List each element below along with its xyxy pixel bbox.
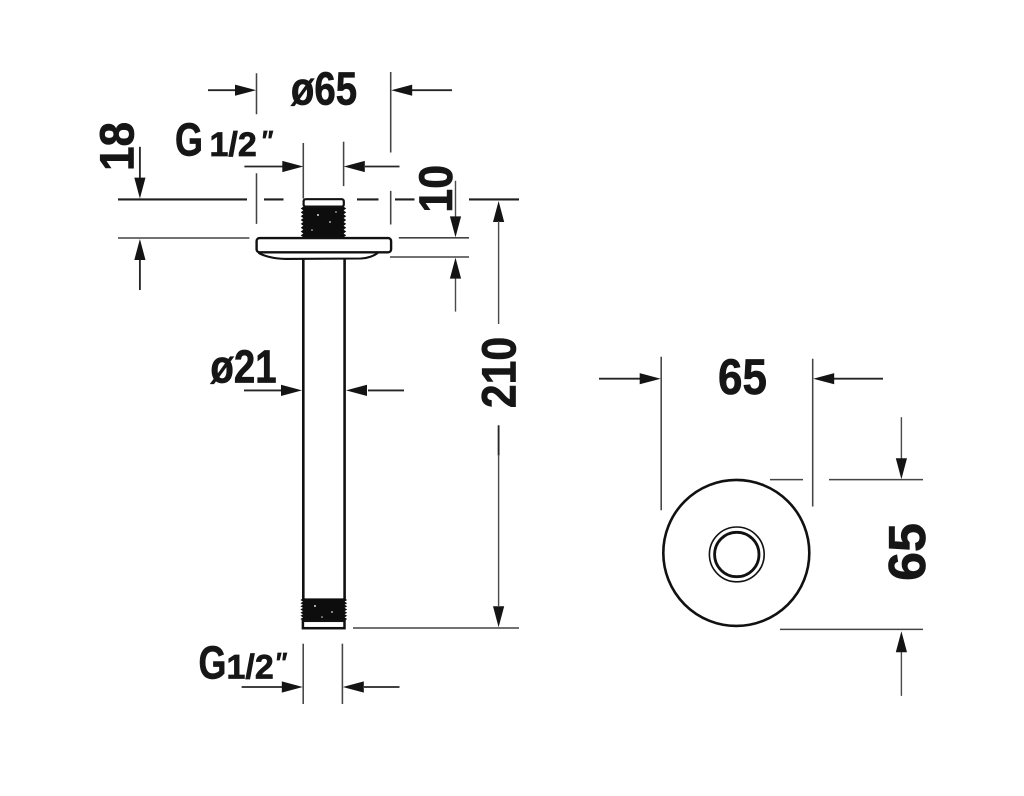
flange plate [257, 238, 392, 252]
right view: inner ring [715, 532, 759, 576]
bottom end band [303, 621, 345, 628]
bottom thread (hatched) [300, 598, 347, 620]
circle bottom tangent extension line [780, 628, 923, 630]
pipe bottom extension line [353, 627, 519, 629]
dim ø21: left arrow [244, 389, 283, 391]
svg-text:10: 10 [409, 165, 462, 213]
dim 65 horizontal: left extension line [660, 357, 662, 511]
pipe right wall [343, 259, 346, 599]
svg-text:″: ″ [276, 646, 287, 678]
dim ø65: right arrow [412, 89, 452, 91]
flange skirt [259, 253, 378, 259]
svg-text:″: ″ [262, 124, 273, 156]
dim 65 vertical: top down arrow [900, 417, 902, 459]
svg-text:ø21: ø21 [210, 341, 276, 392]
dim 18: up arrow [139, 260, 141, 290]
svg-text:G: G [199, 637, 227, 688]
flange top extension line left [118, 237, 249, 239]
flange bottom extension line right [390, 256, 469, 258]
ceiling line solid right (top ref of 210) [469, 198, 519, 200]
right view: outer circle (rosette) [663, 480, 809, 626]
dim ø65: right extension line [390, 72, 392, 225]
svg-text:210: 210 [472, 337, 526, 408]
dim 65 horizontal: right arrow [834, 378, 883, 380]
top thread speckles [311, 211, 337, 231]
dim 65 horizontal: right extension line [812, 359, 814, 507]
dim ø65: left extension line [256, 73, 258, 224]
bottom thread speckles [314, 605, 333, 618]
ceiling line solid left [118, 198, 247, 200]
dim G1/2 bottom: left arrow [242, 686, 283, 688]
right view: middle ring [709, 527, 764, 582]
dim 65 vertical: bottom up arrow [900, 652, 902, 696]
dim G1/2 bottom: left extension line [302, 644, 304, 704]
svg-text:65: 65 [718, 348, 767, 404]
dim 10: lower shaft + up arrow [455, 279, 457, 312]
svg-text:1/2: 1/2 [227, 648, 274, 686]
dim 65 horizontal: left arrow [599, 378, 640, 380]
svg-text:1/2: 1/2 [210, 126, 257, 164]
svg-text:18: 18 [90, 122, 144, 171]
dim ø65: left arrow [208, 89, 240, 91]
dim G1/2 top: left extension line [302, 143, 304, 199]
dim G1/2 top: left arrow [244, 166, 285, 168]
top thread (hatched) [301, 207, 347, 238]
dim 210: top up arrow + shaft [493, 201, 504, 222]
flange top extension line right [399, 237, 469, 239]
dim 10: upper shaft + down arrow [455, 181, 457, 217]
top cap [304, 199, 344, 206]
svg-text:ø65: ø65 [291, 63, 357, 114]
svg-text:65: 65 [879, 523, 937, 581]
dim ø21: right arrow [368, 389, 404, 391]
svg-text:G: G [175, 114, 203, 165]
dim G1/2 top: right arrow [365, 166, 400, 168]
dim 18: down arrow [139, 147, 141, 185]
dim G1/2 bottom: right extension line [341, 644, 343, 704]
pipe left wall [302, 259, 305, 599]
circle top tangent extension line [770, 479, 923, 481]
dim G1/2 top: right extension line [343, 142, 345, 186]
dim 210: lower shaft + bottom down arrow [498, 425, 500, 455]
ceiling line dashes [264, 198, 415, 200]
dim G1/2 bottom: right arrow [364, 686, 400, 688]
